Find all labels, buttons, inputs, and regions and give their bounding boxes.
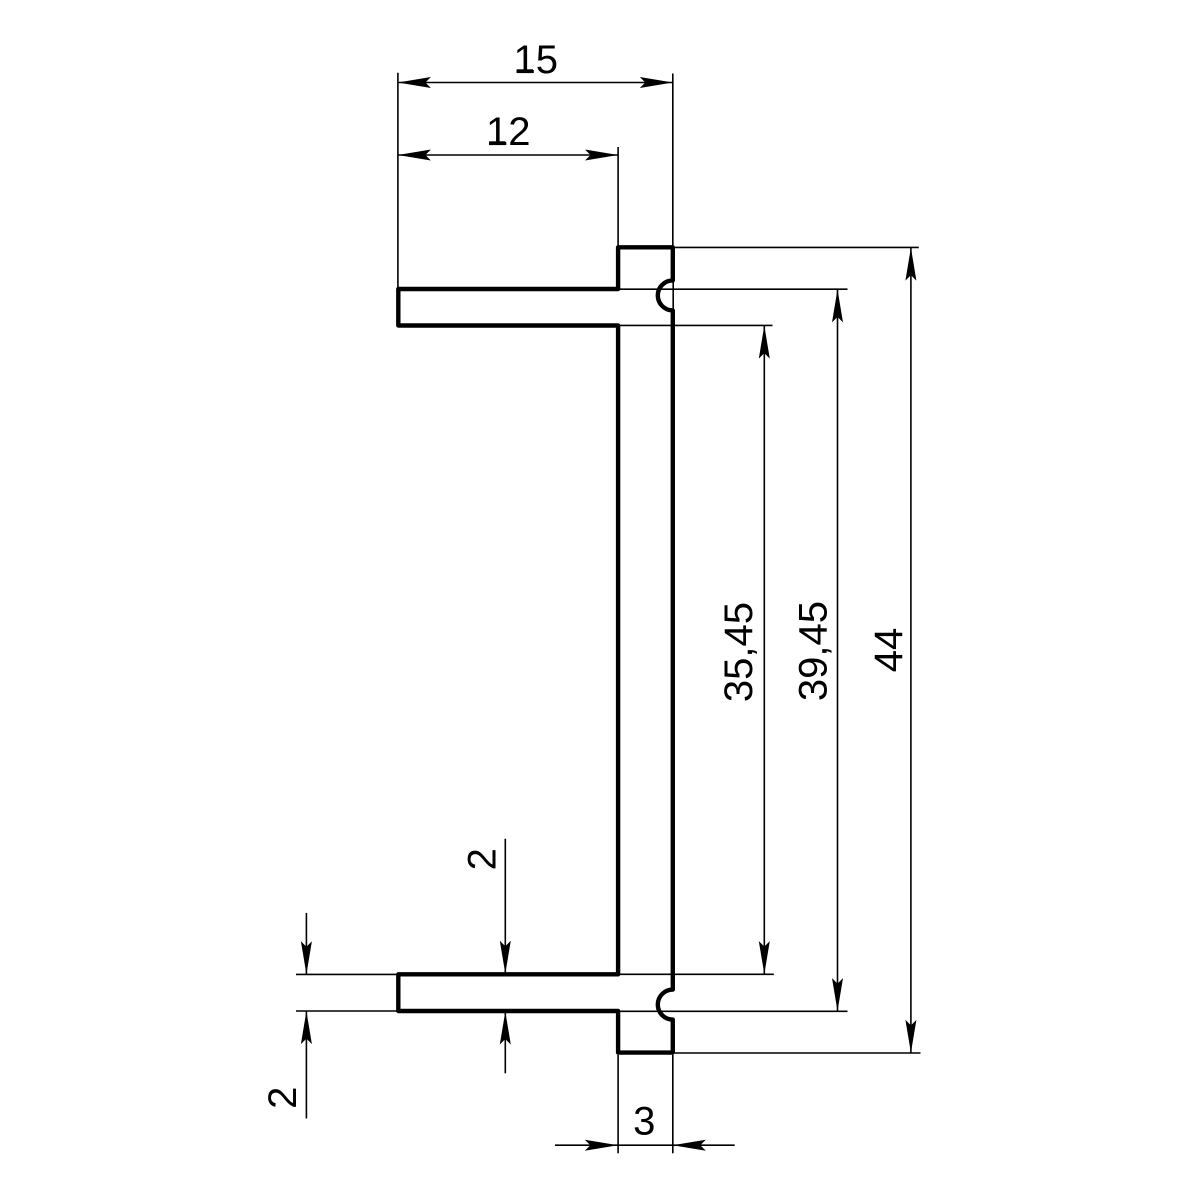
dimension 15 line bbox=[398, 82, 673, 84]
extension line right x=672.8 (15) bbox=[672, 74, 674, 248]
dimension 44 line bbox=[910, 247, 912, 1053]
svg-text:15: 15 bbox=[514, 38, 559, 82]
dimension 2 left arrows bbox=[301, 941, 312, 1044]
extension line x=618.1 (12) bbox=[617, 147, 619, 247]
extension line y=1011 left (2) bbox=[296, 1010, 398, 1012]
svg-text:3: 3 bbox=[633, 1100, 655, 1144]
dimension 12 line bbox=[398, 154, 618, 156]
extension line y=974.4 left (2) bbox=[296, 973, 398, 975]
svg-text:39,45: 39,45 bbox=[792, 601, 836, 701]
dimension 12 arrows bbox=[398, 150, 618, 161]
svg-text:35,45: 35,45 bbox=[717, 602, 761, 702]
dimension 15 arrows bbox=[398, 77, 673, 88]
extension line left x=397.9 (15/12) bbox=[397, 73, 399, 288]
dimension 39,45 line bbox=[837, 289, 839, 1011]
svg-text:44: 44 bbox=[867, 628, 911, 673]
extension line y=289.2 (39,45 top) bbox=[620, 288, 848, 290]
dimension 3 line bbox=[555, 1144, 735, 1146]
extension line y=247.4 (44 top) bbox=[675, 246, 919, 248]
dimension 2 middle arrows bbox=[500, 941, 511, 1045]
notch chord line top bbox=[672, 280, 674, 309]
dimension 35,45 line bbox=[763, 325, 765, 974]
svg-text:2: 2 bbox=[461, 848, 505, 870]
dimension 35,45 arrows bbox=[759, 326, 770, 975]
extension line x=672.8 (3 right) bbox=[672, 1055, 674, 1154]
svg-text:12: 12 bbox=[486, 110, 531, 154]
extension line x=618.1 (3 left) bbox=[617, 1055, 619, 1154]
dimension 39,45 arrows bbox=[832, 289, 843, 1011]
dimension 2 left lines bbox=[305, 913, 307, 1119]
dimension 3 arrows bbox=[585, 1140, 706, 1151]
extension line y=325.4 (35,45 top) bbox=[620, 324, 773, 326]
extension line y=974.3 (35,45 bottom) bbox=[620, 973, 774, 975]
svg-text:2: 2 bbox=[261, 1087, 305, 1109]
extension line y=1011.3 (39,45 bottom) bbox=[620, 1010, 848, 1012]
extension line y=1053 (44 bottom) bbox=[675, 1052, 921, 1054]
dimension 2 middle lines bbox=[504, 839, 506, 1074]
profile outline bbox=[398, 247, 673, 1052]
dimension 44 arrows bbox=[905, 248, 916, 1053]
